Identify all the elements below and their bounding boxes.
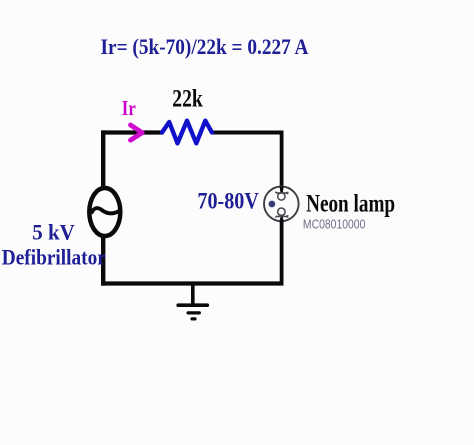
svg-text:Ir= (5k-70)/22k = 0.227 A: Ir= (5k-70)/22k = 0.227 A [101, 34, 309, 59]
svg-text:MC08010000: MC08010000 [303, 217, 366, 232]
svg-text:Neon lamp: Neon lamp [306, 191, 395, 218]
svg-text:5 kV: 5 kV [32, 219, 75, 244]
svg-text:Defibrillator: Defibrillator [2, 245, 106, 270]
svg-text:22k: 22k [172, 86, 203, 113]
svg-text:70-80V: 70-80V [197, 188, 259, 213]
svg-text:Ir: Ir [122, 96, 136, 120]
